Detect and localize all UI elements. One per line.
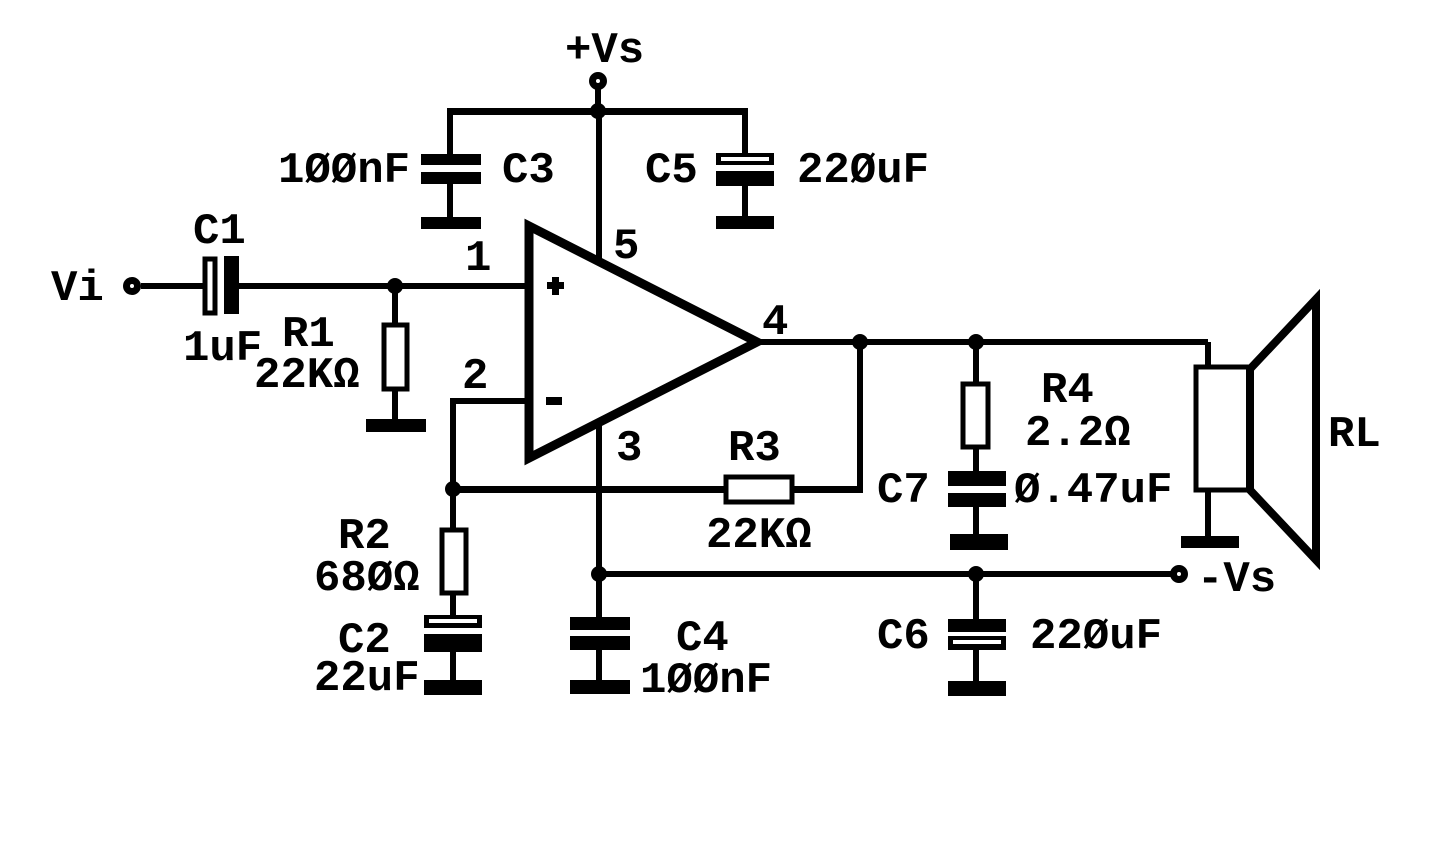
- svg-text:1: 1: [465, 234, 491, 284]
- node junction pin3 rail: [591, 566, 607, 582]
- svg-text:1ØØnF: 1ØØnF: [278, 146, 410, 196]
- node junction feedback: [445, 481, 461, 497]
- wire R3 right lead: [792, 486, 863, 493]
- wire R4 to C7: [973, 447, 979, 471]
- svg-text:C7: C7: [877, 466, 930, 516]
- svg-text:2.2Ω: 2.2Ω: [1025, 409, 1131, 459]
- wire C1 to pin1: [239, 283, 525, 289]
- capacitor C7 plates: [948, 471, 1006, 534]
- svg-text:22uF: 22uF: [314, 654, 420, 704]
- capacitor C2 plates: [424, 615, 482, 680]
- resistor R1 body: [384, 325, 407, 389]
- ground under R1: [366, 419, 426, 432]
- svg-text:C1: C1: [193, 207, 246, 257]
- wire R2 to C2: [450, 593, 456, 617]
- wire R4 top lead: [973, 342, 979, 384]
- svg-text:3: 3: [616, 424, 642, 474]
- node junction on bus: [590, 103, 606, 119]
- svg-text:68ØΩ: 68ØΩ: [314, 554, 420, 604]
- svg-text:1uF: 1uF: [183, 324, 262, 374]
- terminal +Vs: [593, 76, 604, 87]
- wire pin3 down: [596, 420, 602, 619]
- svg-text:Ø.47uF: Ø.47uF: [1014, 466, 1172, 516]
- terminal -Vs: [1174, 569, 1185, 580]
- resistor R3 body: [726, 477, 792, 502]
- wire inverting drop: [450, 398, 456, 489]
- svg-text:+Vs: +Vs: [565, 26, 644, 76]
- wire R2 top lead: [450, 489, 456, 530]
- ground under C4: [570, 680, 630, 694]
- node junction rail C6: [968, 566, 984, 582]
- op-amp minus input marking: [546, 397, 562, 405]
- resistor R4 body: [963, 384, 988, 447]
- svg-text:RL: RL: [1328, 410, 1381, 460]
- wire feedback horizontal to R3: [453, 486, 726, 493]
- svg-text:2: 2: [462, 352, 488, 402]
- svg-text:22KΩ: 22KΩ: [706, 511, 812, 561]
- ground under speaker: [1181, 536, 1239, 548]
- wire -Vs rail: [599, 571, 1171, 577]
- ground under C5: [716, 216, 774, 229]
- wire speaker to ground: [1205, 490, 1211, 536]
- speaker RL box: [1196, 367, 1250, 490]
- wire pin2 horizontal: [450, 398, 529, 404]
- wire output pin4: [757, 339, 1208, 345]
- resistor R2 body: [442, 530, 466, 593]
- ground under C3: [421, 217, 481, 229]
- capacitor C3 plates: [421, 154, 481, 217]
- wire top bus: [447, 108, 748, 115]
- svg-text:5: 5: [613, 222, 639, 272]
- node junction output R4: [968, 334, 984, 350]
- ground under C6: [948, 681, 1006, 696]
- wire C5 drop: [742, 110, 748, 153]
- wire C3 drop: [447, 110, 453, 154]
- wire speaker drop: [1205, 342, 1211, 369]
- wire C6 drop: [973, 574, 979, 619]
- capacitor C4 plates: [570, 617, 630, 680]
- capacitor C1: [205, 256, 239, 314]
- svg-text:Vi: Vi: [51, 264, 104, 314]
- wire +Vs stub: [595, 89, 601, 112]
- wire R1 to ground: [392, 389, 398, 420]
- capacitor C6 plates: [948, 619, 1006, 681]
- op-amp U1 triangle: [529, 226, 757, 458]
- ground under C2: [424, 680, 482, 695]
- svg-text:C5: C5: [645, 146, 698, 196]
- node junction at R1: [387, 278, 403, 294]
- wire pin5 V+: [596, 112, 602, 264]
- svg-text:C6: C6: [877, 612, 930, 662]
- svg-text:22ØuF: 22ØuF: [1030, 612, 1162, 662]
- svg-text:1ØØnF: 1ØØnF: [640, 656, 772, 706]
- terminal Vi: [127, 281, 138, 292]
- svg-text:-Vs: -Vs: [1197, 555, 1276, 605]
- svg-text:C3: C3: [502, 146, 555, 196]
- op-amp plus input marking: [547, 277, 564, 295]
- svg-text:R3: R3: [728, 424, 781, 474]
- svg-text:22KΩ: 22KΩ: [254, 351, 360, 401]
- speaker RL cone: [1250, 299, 1316, 560]
- wire Vi to C1: [141, 283, 203, 289]
- svg-text:22ØuF: 22ØuF: [797, 146, 929, 196]
- node junction output feedback: [852, 334, 868, 350]
- wire feedback vertical: [857, 342, 863, 489]
- capacitor C5 plates: [716, 153, 774, 216]
- wire junction to R1: [392, 286, 398, 327]
- ground under C7: [950, 534, 1008, 550]
